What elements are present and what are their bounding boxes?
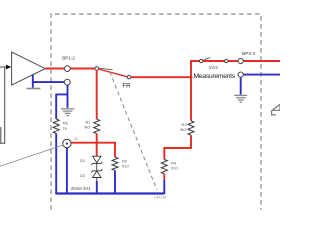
svg-text:Measurements: Measurements bbox=[194, 73, 236, 80]
switch FR fixed contact bbox=[127, 75, 131, 79]
ground (earth) at BP4 bbox=[234, 95, 247, 102]
svg-text:9k2: 9k2 bbox=[180, 127, 187, 132]
jack J1 bbox=[63, 139, 71, 147]
wire: R4 to bus (blue) bbox=[163, 180, 165, 194]
callout line from J1 bbox=[0, 145, 63, 166]
wire: R2 to bus (blue) bbox=[114, 170, 116, 194]
svg-text:J1: J1 bbox=[73, 136, 78, 141]
switch FR pivot contact bbox=[95, 67, 99, 71]
wire: R6 to bus (blue) bbox=[55, 133, 57, 194]
wire: BP2 down (blue) bbox=[67, 85, 69, 108]
svg-text:D2: D2 bbox=[80, 173, 86, 178]
svg-text:Zener 4V1: Zener 4V1 bbox=[71, 186, 91, 191]
wire: ground bus (blue) bbox=[55, 192, 164, 194]
wire: op-amp output (red) bbox=[45, 68, 96, 70]
wire: blue branch to left column bbox=[56, 94, 67, 119]
switch FR blade wire (red) bbox=[98, 69, 127, 77]
svg-text:1N4148: 1N4148 bbox=[154, 196, 166, 200]
switch FR blade (open throw, gray) bbox=[99, 68, 113, 70]
banana plug BP2 bbox=[64, 79, 70, 85]
ground bar under op-amp bbox=[26, 88, 40, 90]
wire: D2 to bus bbox=[96, 178, 98, 182]
svg-text:1k: 1k bbox=[63, 125, 67, 130]
junction at J1 node bbox=[95, 141, 98, 144]
svg-text:SW2: SW2 bbox=[209, 65, 219, 70]
wire: SW2 feed up (red) bbox=[191, 61, 280, 77]
switch SW2 contact a bbox=[200, 59, 203, 62]
wire: op-amp ground stub (blue) bbox=[32, 75, 34, 88]
svg-text:910: 910 bbox=[122, 164, 129, 169]
ground (earth) below BP2 bbox=[61, 109, 74, 116]
wire: D1-D2 link bbox=[96, 163, 98, 170]
zener D2 bbox=[91, 169, 102, 177]
resistor R2 bbox=[112, 157, 118, 170]
svg-text:FR: FR bbox=[122, 83, 131, 90]
svg-text:9k2: 9k2 bbox=[84, 125, 91, 130]
clipped label at right edge bbox=[272, 104, 280, 110]
wire: input to op-amp bbox=[0, 66, 8, 68]
wire: R4 bottom red stub bbox=[163, 174, 165, 180]
wire: J1 node horizontal (red) bbox=[71, 143, 115, 158]
resistor R4 bbox=[161, 159, 167, 173]
wire: measurement return (blue) bbox=[241, 74, 280, 76]
mechanical coupling (dashed) bbox=[110, 72, 157, 190]
resistor R1 bbox=[94, 119, 100, 133]
resistor R6 bbox=[53, 119, 59, 133]
wire: R3 to R4 (red) bbox=[164, 135, 191, 159]
svg-text:D1: D1 bbox=[80, 158, 86, 163]
banana plug BP1 bbox=[64, 66, 70, 72]
op-amp U1 bbox=[12, 52, 46, 85]
svg-text:BP3-4: BP3-4 bbox=[242, 51, 255, 56]
zener D1 bbox=[91, 156, 102, 165]
wire: R1 to J1 node (red) bbox=[96, 134, 98, 143]
switch SW2 blade bbox=[203, 57, 211, 60]
wire: blue feedback to BP2 bbox=[33, 81, 65, 83]
instrument boundary (dashed box) bbox=[51, 14, 261, 210]
wire: R3 branch top (red) bbox=[190, 77, 192, 121]
svg-text:910: 910 bbox=[171, 166, 178, 171]
junction at measurement node bbox=[190, 76, 193, 79]
banana plug BP4 bbox=[238, 72, 243, 77]
wire: J1 down to bus (blue) bbox=[66, 148, 68, 194]
wire: diode branch (red) bbox=[96, 143, 98, 156]
banana plug BP3 bbox=[238, 58, 243, 63]
wire: BP4 to ground (blue) bbox=[240, 77, 242, 94]
svg-text:BP1-2: BP1-2 bbox=[62, 55, 75, 60]
wire: R1 branch top (red) bbox=[96, 70, 98, 119]
resistor R3 bbox=[188, 121, 194, 135]
input arrowhead bbox=[6, 65, 11, 70]
input source block (clipped at left edge) bbox=[0, 67, 5, 143]
wire: FR to node (red) bbox=[131, 76, 191, 78]
switch SW2 contact b bbox=[225, 59, 228, 62]
